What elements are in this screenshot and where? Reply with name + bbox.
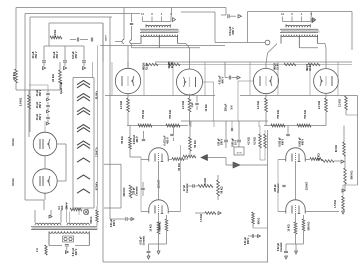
svg-text:750 KΩ: 750 KΩ: [168, 110, 172, 119]
svg-text:2.2 KΩ: 2.2 KΩ: [256, 101, 260, 109]
svg-text:Ceramic: Ceramic: [135, 186, 138, 196]
svg-text:60 KΩ: 60 KΩ: [335, 145, 338, 152]
svg-text:250 µF: 250 µF: [225, 103, 228, 111]
svg-text:51 KΩ: 51 KΩ: [204, 178, 207, 185]
svg-text:600 V: 600 V: [231, 27, 235, 34]
svg-text:2.2 KΩ: 2.2 KΩ: [119, 101, 123, 109]
svg-text:750 KΩ: 750 KΩ: [276, 110, 280, 119]
svg-text:750 KΩ: 750 KΩ: [303, 110, 307, 119]
svg-text:10 V: 10 V: [234, 140, 237, 145]
svg-text:10 KΩ: 10 KΩ: [150, 224, 153, 231]
svg-text:16 KΩ: 16 KΩ: [288, 224, 291, 231]
svg-text:VAC: VAC: [61, 205, 64, 210]
svg-text:500 KΩ: 500 KΩ: [308, 222, 311, 231]
svg-text:450 V: 450 V: [39, 89, 42, 96]
svg-text:Ceramic: Ceramic: [277, 183, 280, 193]
svg-text:12AX7's: 12AX7's: [96, 147, 99, 157]
svg-text:Ceramic: Ceramic: [280, 242, 283, 252]
svg-text:86 KΩ: 86 KΩ: [121, 136, 124, 143]
svg-text:450 V: 450 V: [39, 101, 42, 108]
svg-text:600 Ω: 600 Ω: [90, 217, 93, 224]
svg-text:2.2 KΩ: 2.2 KΩ: [339, 99, 342, 107]
svg-text:280 V: 280 V: [65, 202, 69, 209]
svg-text:350 V: 350 V: [34, 51, 38, 58]
svg-text:600 V: 600 V: [247, 237, 250, 244]
svg-text:325 V: 325 V: [106, 35, 108, 41]
svg-text:16: 16: [281, 12, 285, 16]
svg-text:1 µF: 1 µF: [191, 102, 194, 107]
svg-text:600 KΩ: 600 KΩ: [123, 188, 126, 197]
svg-text:600 V: 600 V: [113, 219, 116, 226]
svg-text:2.2 KΩ: 2.2 KΩ: [181, 101, 185, 109]
svg-text:400 V: 400 V: [281, 138, 284, 145]
svg-text:600 Ω: 600 Ω: [258, 218, 261, 225]
svg-text:6CA4: 6CA4: [11, 178, 15, 186]
svg-text:4.2 KΩ: 4.2 KΩ: [248, 137, 251, 145]
svg-text:400 V: 400 V: [136, 136, 139, 143]
svg-text:12AX7: 12AX7: [305, 181, 309, 190]
svg-text:63 KΩ: 63 KΩ: [318, 153, 321, 160]
svg-text:5 H: 5 H: [231, 105, 234, 109]
svg-text:400 V: 400 V: [166, 137, 169, 144]
svg-text:2 A: 2 A: [35, 248, 39, 252]
svg-text:EL84: EL84: [145, 63, 149, 70]
svg-text:350 V: 350 V: [74, 51, 78, 58]
svg-text:600 V: 600 V: [221, 76, 225, 83]
svg-text:EL84: EL84: [276, 63, 280, 70]
svg-text:Ceramic: Ceramic: [186, 183, 189, 193]
svg-text:6CA4's: 6CA4's: [96, 181, 99, 190]
svg-text:Ceramic: Ceramic: [142, 235, 145, 245]
svg-text:EL84's: EL84's: [96, 90, 99, 99]
svg-text:13 KΩ: 13 KΩ: [205, 104, 208, 111]
svg-text:2.2 KΩ: 2.2 KΩ: [317, 101, 321, 109]
svg-text:16: 16: [141, 12, 145, 16]
svg-text:1.5 KΩ: 1.5 KΩ: [54, 30, 57, 38]
svg-text:750 KΩ: 750 KΩ: [141, 110, 145, 119]
svg-text:500 KΩ: 500 KΩ: [159, 222, 162, 231]
svg-text:22 KΩ: 22 KΩ: [51, 73, 55, 82]
svg-text:Quad Cap: Quad Cap: [59, 81, 63, 94]
svg-text:350 V: 350 V: [55, 51, 59, 58]
svg-text:EL84: EL84: [170, 61, 174, 68]
svg-text:3.9 KΩ: 3.9 KΩ: [19, 97, 23, 106]
svg-text:98 KΩ: 98 KΩ: [221, 186, 224, 193]
svg-text:4.2 KΩ: 4.2 KΩ: [254, 137, 257, 145]
svg-text:100 V: 100 V: [220, 138, 223, 145]
svg-text:600 V: 600 V: [75, 248, 78, 255]
svg-text:400 V: 400 V: [301, 138, 304, 145]
svg-text:450 V: 450 V: [39, 113, 42, 120]
svg-text:6CA4: 6CA4: [11, 138, 15, 146]
svg-text:50 KΩ: 50 KΩ: [194, 140, 197, 147]
svg-text:500 KΩ: 500 KΩ: [351, 171, 354, 180]
svg-text:1.5 KΩ: 1.5 KΩ: [334, 200, 337, 208]
svg-text:1.5 KΩ: 1.5 KΩ: [200, 214, 203, 222]
